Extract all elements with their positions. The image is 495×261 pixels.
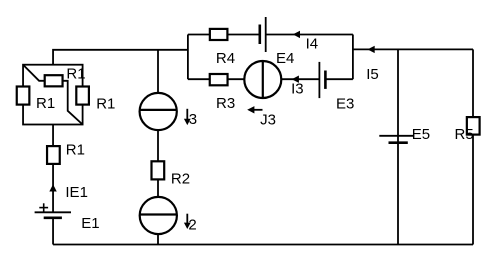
svg-text:E1: E1 bbox=[81, 215, 99, 232]
svg-text:E5: E5 bbox=[412, 126, 430, 143]
svg-text:R1: R1 bbox=[66, 141, 85, 158]
arrow I4 bbox=[293, 31, 300, 38]
svg-text:R1: R1 bbox=[66, 65, 85, 82]
wire E5 rail bbox=[397, 49, 399, 244]
wire middle rail between R2 and source 2 bbox=[157, 179, 159, 197]
wire R5 rail top bbox=[472, 49, 474, 117]
svg-text:I5: I5 bbox=[366, 66, 379, 83]
wire bridge bottom pin bbox=[52, 125, 54, 147]
svg-text:3: 3 bbox=[189, 111, 197, 128]
svg-text:R1: R1 bbox=[96, 96, 115, 113]
wire E3-E4 loop right edge bbox=[352, 35, 354, 80]
wire middle rail between source 3 and R2 bbox=[157, 130, 159, 161]
svg-text:2: 2 bbox=[188, 216, 196, 233]
resistor R2 bbox=[152, 161, 165, 179]
wire left rail E1 to bottom bus bbox=[52, 218, 54, 245]
wire I5 top right bbox=[353, 48, 473, 50]
svg-text:R2: R2 bbox=[171, 171, 190, 188]
wire left rail R1 to E1 bbox=[52, 164, 54, 212]
wire bottom branch E3 to right corner bbox=[325, 78, 353, 80]
wire bottom bus bbox=[53, 244, 473, 246]
svg-text:E4: E4 bbox=[276, 50, 294, 67]
wire middle rail top bbox=[157, 50, 159, 94]
wire bottom branch E4 to E3 bbox=[281, 78, 319, 80]
wire bridge right stub and diagonal lower-right bbox=[63, 81, 83, 125]
wire bridge diagonal upper-left bbox=[23, 65, 45, 81]
wire bottom branch left of R3 bbox=[188, 78, 210, 80]
arrow down 2 bbox=[184, 214, 191, 229]
svg-text:J3: J3 bbox=[260, 111, 276, 128]
resistor R3 bbox=[210, 74, 228, 85]
voltage source E4 circle bbox=[244, 61, 281, 98]
resistor R1 right (bridge) bbox=[76, 87, 89, 105]
svg-text:R4: R4 bbox=[216, 50, 235, 67]
resistor R1 middle (bridge) bbox=[45, 75, 63, 86]
wire top branch battery to right corner bbox=[266, 34, 353, 36]
wire middle rail bottom bbox=[157, 234, 159, 245]
resistor R1 series bbox=[47, 146, 60, 164]
svg-text:I4: I4 bbox=[306, 35, 319, 52]
node bridge network outline bbox=[23, 65, 83, 125]
wire E3-E4 loop left edge bbox=[187, 35, 189, 80]
svg-text:IE1: IE1 bbox=[65, 184, 88, 201]
svg-text:R3: R3 bbox=[216, 95, 235, 112]
battery E5 bbox=[379, 136, 414, 143]
svg-text:R1: R1 bbox=[36, 95, 55, 112]
wire top bus bbox=[53, 50, 188, 65]
resistor R5 bbox=[467, 117, 480, 135]
svg-text:I3: I3 bbox=[291, 81, 304, 98]
wire R5 rail bottom bbox=[472, 135, 474, 245]
arrow down 3 bbox=[184, 109, 191, 125]
wire top branch R4 to battery bbox=[227, 34, 259, 36]
resistor R4 bbox=[210, 29, 228, 40]
wire top branch left of R4 bbox=[188, 34, 210, 36]
wire bottom branch R3 to E4 bbox=[228, 78, 245, 80]
battery E3 bbox=[319, 62, 325, 98]
battery E1 bbox=[35, 212, 71, 218]
current source 3 bbox=[140, 93, 177, 130]
arrow I3 bbox=[292, 76, 299, 83]
battery top branch (I4) bbox=[260, 17, 266, 52]
plus sign E1 bbox=[39, 203, 48, 212]
svg-text:R5: R5 bbox=[455, 126, 474, 143]
svg-text:E3: E3 bbox=[336, 95, 354, 112]
arrow IE1 bbox=[49, 184, 56, 191]
current source 2 bbox=[140, 197, 177, 234]
arrow I5 bbox=[368, 46, 375, 53]
arrow J3 bbox=[247, 106, 262, 113]
resistor R1 left (bridge) bbox=[17, 87, 30, 105]
